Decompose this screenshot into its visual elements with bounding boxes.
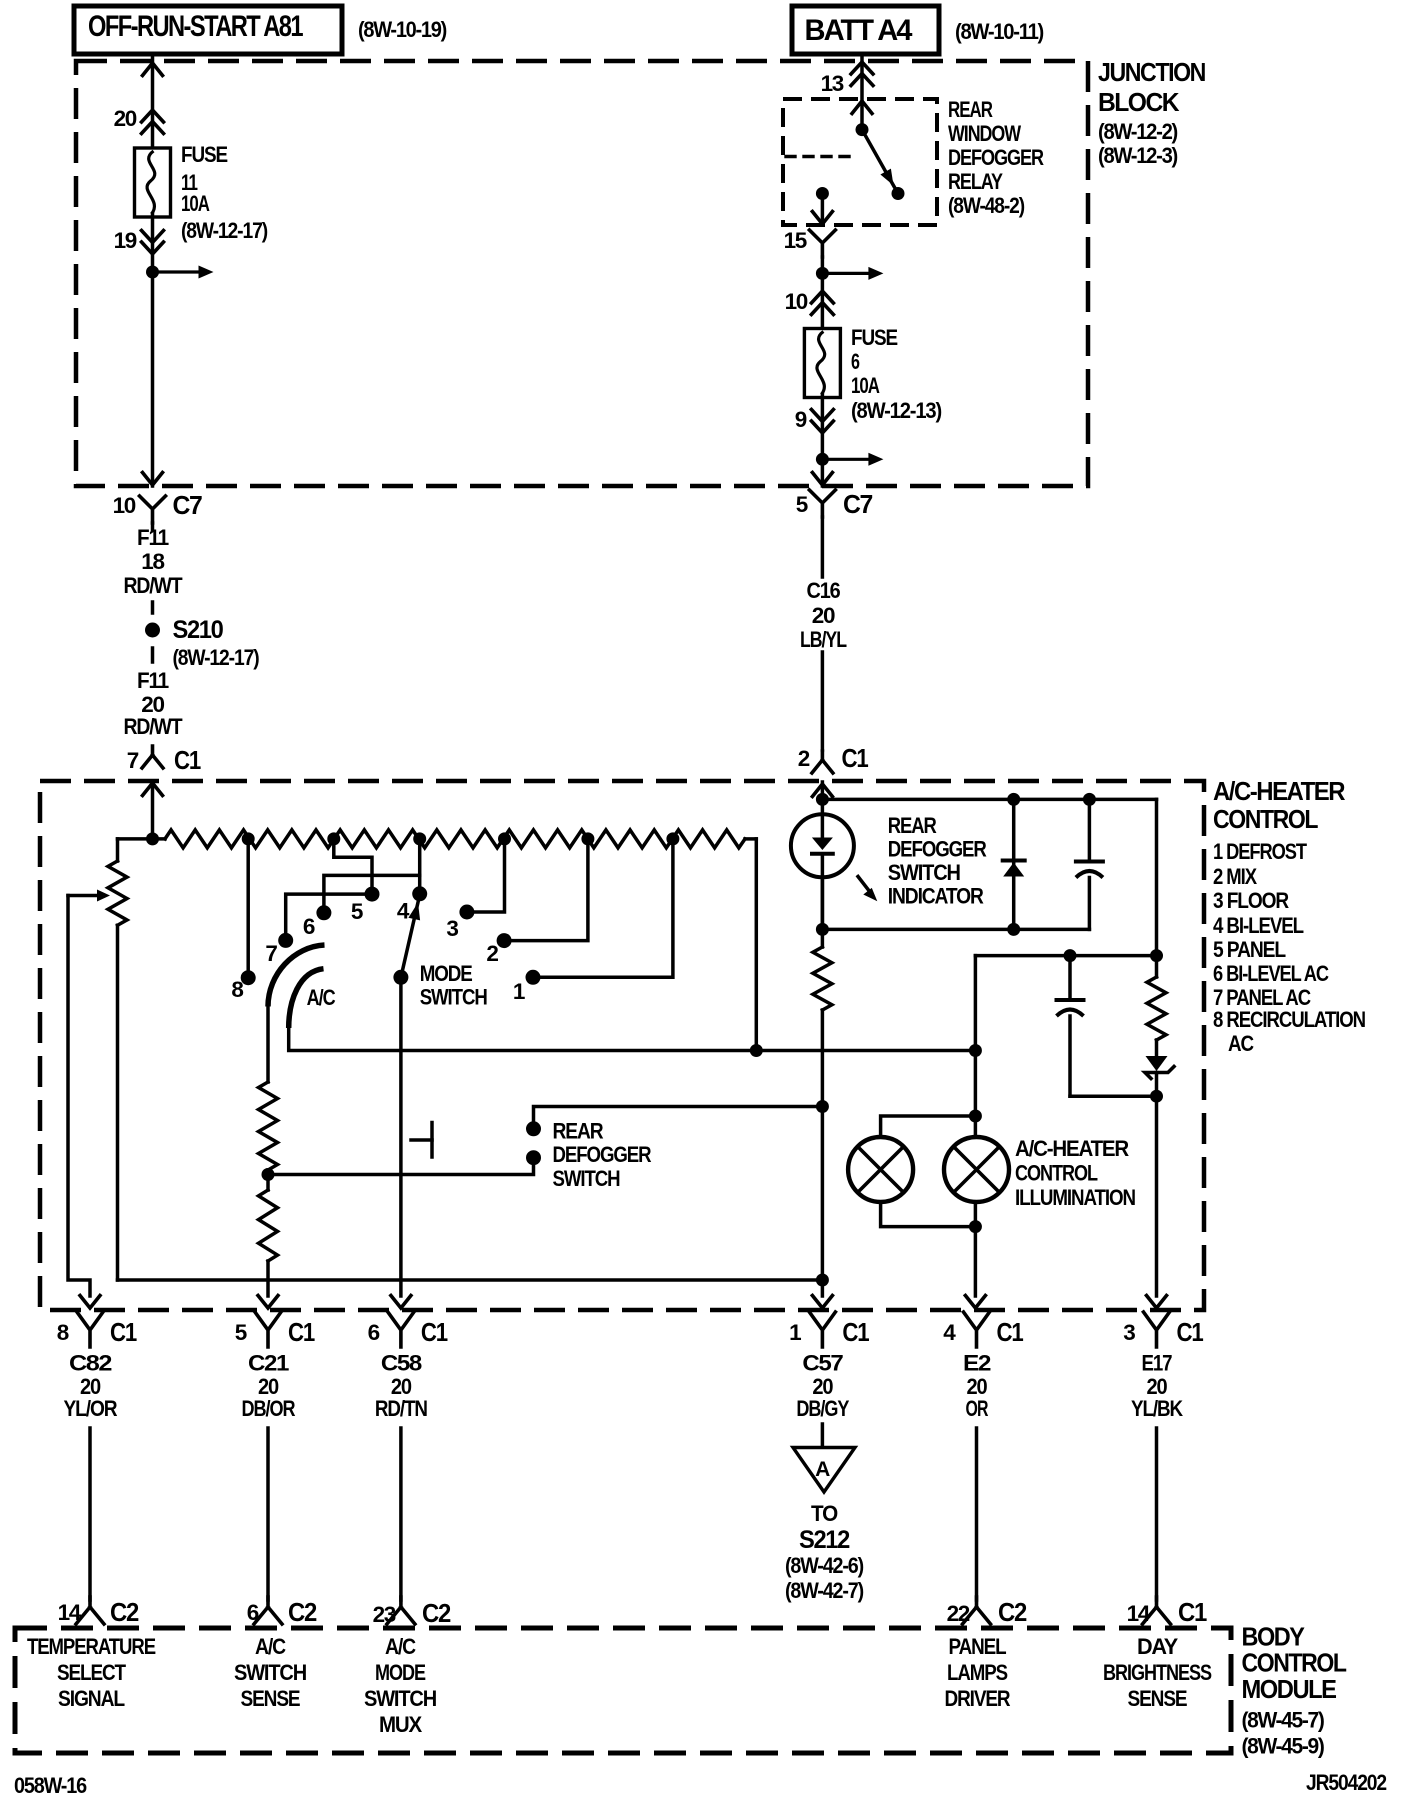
- svg-text:A/C-HEATER: A/C-HEATER: [1213, 776, 1346, 806]
- svg-text:RD/TN: RD/TN: [375, 1396, 427, 1421]
- svg-text:MODE: MODE: [420, 961, 473, 986]
- svg-text:SELECT: SELECT: [57, 1660, 126, 1685]
- svg-text:7: 7: [127, 748, 139, 773]
- svg-text:ILLUMINATION: ILLUMINATION: [1015, 1185, 1135, 1210]
- svg-text:6 BI-LEVEL AC: 6 BI-LEVEL AC: [1213, 961, 1329, 986]
- svg-text:SWITCH: SWITCH: [553, 1166, 620, 1191]
- svg-text:RELAY: RELAY: [948, 169, 1003, 194]
- svg-text:C57: C57: [802, 1351, 843, 1376]
- svg-text:F11: F11: [137, 668, 169, 693]
- svg-text:(8W-12-3): (8W-12-3): [1098, 143, 1178, 168]
- svg-text:S212: S212: [799, 1526, 849, 1554]
- svg-text:14: 14: [1127, 1601, 1151, 1626]
- svg-text:C82: C82: [69, 1351, 112, 1376]
- svg-text:OR: OR: [966, 1396, 989, 1421]
- svg-text:4 BI-LEVEL: 4 BI-LEVEL: [1213, 913, 1304, 938]
- svg-text:(8W-12-17): (8W-12-17): [181, 218, 268, 243]
- svg-text:10: 10: [785, 289, 808, 314]
- svg-text:C2: C2: [422, 1598, 451, 1628]
- svg-text:C1: C1: [1177, 1317, 1204, 1347]
- svg-text:(8W-42-7): (8W-42-7): [785, 1578, 864, 1603]
- svg-text:S210: S210: [173, 616, 223, 644]
- svg-text:10A: 10A: [181, 191, 210, 216]
- svg-text:E2: E2: [963, 1351, 991, 1376]
- svg-text:SWITCH: SWITCH: [234, 1660, 306, 1685]
- svg-text:MODULE: MODULE: [1242, 1674, 1337, 1704]
- svg-text:C2: C2: [110, 1597, 139, 1627]
- svg-text:REAR: REAR: [888, 813, 937, 838]
- svg-text:13: 13: [821, 71, 844, 96]
- svg-text:FUSE: FUSE: [181, 142, 228, 167]
- svg-text:6: 6: [303, 914, 315, 939]
- svg-text:8 RECIRCULATION: 8 RECIRCULATION: [1213, 1007, 1365, 1032]
- svg-text:SWITCH: SWITCH: [364, 1686, 436, 1711]
- svg-text:6: 6: [851, 349, 860, 374]
- svg-text:TO: TO: [811, 1501, 838, 1526]
- svg-text:SWITCH: SWITCH: [420, 985, 487, 1010]
- svg-text:6: 6: [368, 1320, 380, 1345]
- svg-text:(8W-12-13): (8W-12-13): [851, 398, 942, 423]
- svg-text:A/C: A/C: [385, 1634, 416, 1659]
- svg-text:(8W-12-17): (8W-12-17): [173, 645, 260, 670]
- svg-text:LAMPS: LAMPS: [947, 1660, 1008, 1685]
- svg-text:CONTROL: CONTROL: [1015, 1161, 1098, 1186]
- svg-text:C1: C1: [842, 743, 869, 773]
- svg-text:MODE: MODE: [375, 1660, 426, 1685]
- svg-text:DEFOGGER: DEFOGGER: [888, 837, 987, 862]
- svg-text:YL/BK: YL/BK: [1131, 1396, 1184, 1421]
- svg-text:C1: C1: [997, 1317, 1024, 1347]
- svg-text:A/C-HEATER: A/C-HEATER: [1015, 1136, 1129, 1161]
- svg-text:C1: C1: [421, 1317, 448, 1347]
- svg-text:YL/OR: YL/OR: [64, 1396, 118, 1421]
- svg-text:8: 8: [57, 1320, 69, 1345]
- svg-text:SWITCH: SWITCH: [888, 860, 960, 885]
- svg-text:RD/WT: RD/WT: [124, 573, 183, 598]
- svg-text:C7: C7: [843, 489, 873, 519]
- svg-text:(8W-48-2): (8W-48-2): [948, 193, 1025, 218]
- svg-text:6: 6: [247, 1600, 259, 1625]
- svg-text:20: 20: [812, 603, 835, 628]
- svg-text:4: 4: [943, 1320, 956, 1345]
- svg-text:BATT A4: BATT A4: [805, 14, 913, 47]
- svg-text:C2: C2: [288, 1597, 317, 1627]
- svg-text:WINDOW: WINDOW: [948, 121, 1022, 146]
- svg-text:3: 3: [1123, 1320, 1135, 1345]
- svg-text:5: 5: [235, 1320, 247, 1345]
- svg-text:058W-16: 058W-16: [14, 1773, 87, 1798]
- svg-text:4: 4: [397, 899, 410, 924]
- svg-text:(8W-42-6): (8W-42-6): [785, 1553, 864, 1578]
- svg-text:(8W-12-2): (8W-12-2): [1098, 119, 1178, 144]
- svg-text:TEMPERATURE: TEMPERATURE: [27, 1634, 156, 1659]
- svg-text:1: 1: [789, 1320, 801, 1345]
- svg-text:C1: C1: [842, 1317, 869, 1347]
- svg-text:DEFOGGER: DEFOGGER: [948, 145, 1044, 170]
- svg-text:PANEL: PANEL: [949, 1634, 1007, 1659]
- svg-text:REAR: REAR: [553, 1119, 604, 1144]
- svg-text:LB/YL: LB/YL: [800, 627, 847, 652]
- svg-text:SIGNAL: SIGNAL: [58, 1686, 125, 1711]
- svg-text:10: 10: [113, 493, 136, 518]
- svg-text:BRIGHTNESS: BRIGHTNESS: [1103, 1660, 1212, 1685]
- svg-text:1 DEFROST: 1 DEFROST: [1213, 839, 1307, 864]
- svg-text:C16: C16: [807, 578, 841, 603]
- svg-text:FUSE: FUSE: [851, 325, 898, 350]
- svg-text:MUX: MUX: [379, 1712, 422, 1737]
- svg-text:9: 9: [795, 407, 807, 432]
- svg-text:C58: C58: [381, 1351, 422, 1376]
- svg-text:8: 8: [231, 977, 243, 1002]
- svg-text:(8W-10-11): (8W-10-11): [955, 19, 1044, 44]
- svg-text:(8W-45-9): (8W-45-9): [1242, 1734, 1325, 1759]
- svg-text:2: 2: [486, 941, 498, 966]
- svg-text:OFF-RUN-START A81: OFF-RUN-START A81: [88, 10, 303, 43]
- svg-text:DAY: DAY: [1137, 1634, 1178, 1659]
- svg-text:SENSE: SENSE: [1128, 1686, 1188, 1711]
- svg-text:7: 7: [265, 941, 277, 966]
- svg-text:1: 1: [513, 979, 525, 1004]
- svg-text:C21: C21: [248, 1351, 289, 1376]
- svg-text:BLOCK: BLOCK: [1098, 87, 1180, 117]
- svg-text:19: 19: [114, 228, 137, 253]
- svg-text:14: 14: [58, 1600, 82, 1625]
- svg-text:23: 23: [373, 1602, 396, 1627]
- svg-text:C1: C1: [288, 1317, 315, 1347]
- svg-text:22: 22: [947, 1601, 970, 1626]
- svg-text:3 FLOOR: 3 FLOOR: [1213, 888, 1289, 913]
- svg-text:DB/GY: DB/GY: [796, 1396, 849, 1421]
- svg-text:10A: 10A: [851, 373, 880, 398]
- svg-text:2: 2: [798, 746, 810, 771]
- svg-text:3: 3: [446, 916, 458, 941]
- svg-text:SENSE: SENSE: [241, 1686, 301, 1711]
- svg-text:C7: C7: [173, 490, 203, 520]
- svg-text:E17: E17: [1142, 1351, 1173, 1376]
- svg-text:F11: F11: [137, 525, 169, 550]
- svg-text:CONTROL: CONTROL: [1213, 804, 1319, 834]
- svg-text:5: 5: [351, 899, 363, 924]
- svg-text:15: 15: [784, 228, 807, 253]
- svg-text:18: 18: [141, 549, 164, 574]
- svg-text:C1: C1: [1178, 1597, 1207, 1627]
- svg-text:RD/WT: RD/WT: [124, 714, 183, 739]
- svg-text:DB/OR: DB/OR: [242, 1396, 296, 1421]
- svg-text:JR504202: JR504202: [1306, 1770, 1387, 1795]
- svg-text:C2: C2: [998, 1597, 1027, 1627]
- svg-text:20: 20: [114, 106, 137, 131]
- svg-text:INDICATOR: INDICATOR: [888, 884, 984, 909]
- svg-text:(8W-45-7): (8W-45-7): [1242, 1708, 1325, 1733]
- svg-text:REAR: REAR: [948, 97, 993, 122]
- svg-text:2 MIX: 2 MIX: [1213, 864, 1257, 889]
- svg-text:C1: C1: [174, 745, 201, 775]
- svg-text:CONTROL: CONTROL: [1242, 1648, 1348, 1678]
- svg-text:A: A: [815, 1458, 830, 1481]
- svg-text:A/C: A/C: [307, 985, 336, 1010]
- svg-text:C1: C1: [110, 1317, 137, 1347]
- svg-text:(8W-10-19): (8W-10-19): [358, 17, 447, 42]
- svg-text:DRIVER: DRIVER: [945, 1686, 1011, 1711]
- svg-text:A/C: A/C: [255, 1634, 286, 1659]
- svg-text:AC: AC: [1228, 1031, 1254, 1056]
- svg-text:JUNCTION: JUNCTION: [1098, 57, 1206, 87]
- svg-text:5 PANEL: 5 PANEL: [1213, 937, 1286, 962]
- svg-text:DEFOGGER: DEFOGGER: [553, 1142, 652, 1167]
- svg-text:5: 5: [796, 492, 808, 517]
